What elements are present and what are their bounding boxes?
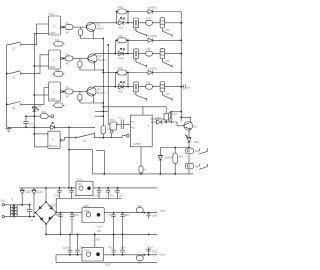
wire Q4 collector up [181,117,190,122]
node ym3 left [115,86,117,88]
node emitter ch1 [103,38,105,40]
wire base Q1 [73,26,86,28]
wire U4 feed down [68,127,70,188]
diode D2 [148,34,181,42]
wire vert right3 [127,73,129,87]
regulator VR3 [82,247,111,266]
node rail1 u4 [68,187,70,189]
svg-text:7912: 7912 [105,263,111,267]
AC plug P1 [1,199,9,218]
LED D10 on ground line [50,122,54,129]
wire left bus [6,45,8,128]
switch motor3 [162,92,172,101]
wire right bus [180,12,182,122]
resistor R11 [117,34,129,43]
svg-text:150: 150 [137,204,142,208]
wire bottom left [7,127,95,129]
wire base Q3 [73,91,87,93]
wire Q1 emitter [81,30,104,38]
svg-text:4148: 4148 [155,116,161,120]
wire rail1 +raw [19,187,157,189]
motor M2 [160,48,170,62]
svg-text:1N4001: 1N4001 [148,66,158,70]
ground [6,127,12,131]
diode D3 [148,66,181,74]
node yt3 feed [103,72,105,74]
LED opto ch3 [119,81,128,93]
svg-text:2200u: 2200u [63,246,71,250]
capacitor C6 [94,187,101,198]
capacitor C15 [63,234,73,255]
svg-text:100u: 100u [152,213,158,217]
wire mystery horizontal [95,110,108,112]
wire vert left3 [114,73,116,87]
svg-text:47u: 47u [109,246,114,250]
wire row C [56,254,157,256]
node top feed [103,106,105,108]
node mid h [104,173,106,175]
svg-text:Rlb: Rlb [195,165,199,169]
capacitor C8 [115,187,123,198]
wire U4 upper pin [34,133,48,135]
wire 555 bottom [140,147,142,166]
svg-text:PL1: PL1 [1,199,6,203]
svg-text:→ +12V: → +12V [93,225,103,229]
svg-text:VR1: VR1 [77,182,83,186]
wire box2 lower pin [34,65,49,67]
svg-text:7812: 7812 [77,177,83,181]
regulator VR1 [76,177,93,195]
svg-text:Q2: Q2 [98,54,102,58]
node R17 bottom [103,137,105,139]
svg-text:150: 150 [137,261,142,265]
svg-text:4k7: 4k7 [66,30,71,34]
diode D1 [148,5,181,13]
diode D8 [20,188,31,205]
svg-text:220u: 220u [152,249,158,253]
wire Q2 emitter [80,62,103,70]
relay K2 [133,49,138,63]
svg-text:10k: 10k [55,38,60,42]
node right top3 [127,72,129,74]
wire 555 right top [152,112,181,120]
resistor R19 [173,148,183,174]
svg-text:1N4001: 1N4001 [148,34,158,38]
wire left feed rows [55,199,57,263]
diode D9 [32,188,43,217]
svg-text:100n: 100n [79,246,85,250]
svg-text:M1: M1 [166,28,170,32]
node bridge gnd [45,234,47,236]
svg-text:100n: 100n [73,213,79,217]
relay K3 [133,82,138,96]
svg-text:R3: R3 [66,85,70,89]
resistor R20 [136,204,145,214]
wire row B [56,212,157,214]
svg-text:Q3: Q3 [97,87,101,91]
node left top2 [116,40,118,42]
svg-text:47u: 47u [109,194,114,198]
node left top3 [116,72,118,74]
svg-text:4L1: 4L1 [119,25,124,29]
node u4 feed [68,149,70,151]
svg-text:VR2: VR2 [84,209,90,213]
wire rail1b [56,198,122,200]
op-amp U2 box [49,50,61,69]
svg-text:2u2: 2u2 [29,122,34,126]
node left top1 [116,11,118,13]
svg-text:100n: 100n [94,194,100,198]
node bus ym1 [180,22,182,24]
connector J1 [51,115,54,118]
node ym3 right [127,86,129,88]
svg-text:S1: S1 [12,47,16,51]
capacitor C13 [120,212,130,235]
svg-text:(bot): (bot) [160,252,165,256]
resistor R3 [65,85,73,98]
node bottom mid loop [174,173,176,175]
node bottom r18 [140,173,142,175]
svg-text:M2: M2 [166,59,170,63]
resistor R4 between boxes [53,38,65,46]
node cap join [25,115,27,117]
transistor Q1 [86,22,105,31]
switch S1 [7,42,23,51]
node bus crossing [34,115,36,117]
pin 6 of U2 [61,57,65,59]
wire U4 lower pin [34,146,48,148]
resistor R17 on emitter bus [101,126,111,138]
resistor R7 pulldown ch1 [78,27,82,38]
wire box3 lower pin [34,94,49,96]
node q4c [180,117,182,119]
resistor R8 pulldown ch2 [78,58,82,70]
node loop top mid [174,147,176,149]
svg-text:470u: 470u [54,194,60,198]
relay RL1 [185,148,199,163]
svg-text:4148: 4148 [25,190,31,194]
pin 6 of U3 [61,91,65,93]
resistor R6 below box3 [53,99,65,107]
LED opto ch1 [119,17,128,29]
svg-text:→ GND: → GND [91,238,100,242]
resistor R12 [117,66,129,75]
node bottom left loop [160,173,162,175]
relay RL2 [185,163,199,174]
switch S2 [6,71,23,80]
op-amp U3 box [49,82,61,101]
wire return bus [34,33,48,146]
wire bridge top to rail1 [45,188,47,202]
resistor R1 [65,21,73,34]
wire vert left1 [116,12,118,23]
svg-text:10k: 10k [55,68,60,72]
svg-text:220: 220 [118,5,123,9]
node sec top [21,204,23,206]
wire GND rail [46,234,157,236]
wire yt2 [128,39,148,41]
switch limit2 [136,58,147,67]
wire S1 to box1 [23,24,49,45]
capacitor C3 [22,204,32,217]
wire ym1 [128,22,181,24]
node emitter ch3 [103,102,105,104]
svg-text:4k7: 4k7 [66,95,71,99]
svg-text:10u: 10u [119,194,124,198]
wire speaker down [165,120,167,122]
LED opto ch2 [119,48,128,60]
transistor Q4 [184,122,197,131]
node ym1 left [116,22,118,24]
resistor R9 pulldown ch3 [78,92,82,104]
svg-text:Rla: Rla [195,149,199,153]
node terminal wire [103,115,105,117]
node ym2 right [127,53,129,55]
switch S4 [76,132,126,142]
svg-text:MOC30: MOC30 [49,144,58,148]
capacitor C7 [106,187,114,198]
resistor R5 between boxes [53,68,65,76]
wire mid horizontal [69,150,104,174]
op-amp U1 box [49,12,61,35]
wire Q3 emitter [80,95,103,103]
resistor R15 [146,80,153,89]
node right top2 [127,40,129,42]
pin circle 555 [126,134,129,137]
svg-text:100n: 100n [73,194,79,198]
LED D4 [32,104,41,111]
wire VR3 gnd [94,234,96,247]
svg-text:1N4007: 1N4007 [48,203,58,207]
wire S3 to box3 [23,88,49,105]
node bus yt2 [180,40,182,42]
node bus yt3 [180,72,182,74]
svg-text:VR3: VR3 [84,249,90,253]
transformer T1 [9,197,34,217]
node bridge rail1 [45,187,47,189]
speaker LS1 [164,111,178,123]
wire ym3 [115,86,181,88]
wire bottom rail [56,261,157,263]
transistor Q3 [87,87,106,96]
node ym2 left [115,53,117,55]
motor M3 [160,82,170,96]
wire Q2 collector [95,54,116,55]
resistor R21 [136,254,145,265]
capacitor C17 [120,234,126,255]
motor M1 [160,18,170,32]
svg-text:S3: S3 [12,106,16,110]
pin circle U4 [60,138,76,142]
switch S3 [6,102,23,110]
node speaker [165,121,167,123]
capacitor C5 [70,187,80,198]
resistor R18 [139,166,148,174]
svg-text:BC547: BC547 [97,91,105,95]
node emitter ch2 [103,69,105,71]
svg-text:RV1: RV1 [110,118,116,122]
wire bridge bottom to gnd rail [45,224,47,234]
svg-text:100: 100 [146,47,151,51]
svg-text:2200u: 2200u [55,213,63,217]
node bus ym3 [180,86,182,88]
node right top1 [127,11,129,13]
svg-text:10k: 10k [55,99,60,103]
wire yt3 feed [103,72,116,74]
capacitor C1 [23,117,34,128]
svg-text:BC547: BC547 [97,26,105,30]
switch limit1 [136,28,147,37]
svg-text:M3: M3 [166,92,170,96]
diode D5 output [152,116,184,126]
wire emitter bus [102,39,104,126]
switch limit3 [136,92,147,101]
wire Q4 emitter + LED D6 [185,129,199,147]
svg-text:100: 100 [146,16,151,20]
capacitor C2 [118,116,130,129]
node aux top [107,44,109,46]
resistor R16 [40,110,48,119]
svg-text:IC1a: IC1a [49,12,55,16]
svg-text:AC: AC [194,125,198,129]
svg-text:7805: 7805 [83,204,89,208]
pin 6 of U1 [61,26,65,28]
node vr3 gnd [94,234,96,236]
svg-text:1N4001: 1N4001 [148,5,158,9]
svg-text:BC547: BC547 [98,58,106,62]
wire S2 to box2 [23,55,49,74]
svg-text:100n: 100n [124,213,130,217]
svg-text:47u: 47u [108,213,113,217]
bridge rectifier B1 [30,201,57,225]
capacitor C12 [108,212,116,235]
wire loop top [160,147,189,149]
wire Q3 collector [94,87,116,88]
wire loop left + diode D7 [158,148,174,174]
svg-text:C2: C2 [118,116,122,120]
svg-text:D4: D4 [38,104,42,108]
wire yt3 [128,72,148,74]
switch motor1 [162,28,172,37]
wire vert left2 [114,40,116,53]
capacitor C10 [55,212,63,235]
switch motor2 [162,59,172,68]
svg-text:220: 220 [118,34,123,38]
trim pot RV1 [108,111,121,137]
wire base Q2 [73,57,88,59]
svg-text:LM555: LM555 [133,142,141,146]
node sec bot [33,216,35,218]
node loop top right [188,147,190,149]
svg-text:4148: 4148 [37,190,43,194]
capacitor C16 [109,234,116,255]
transistor Q2 [88,54,107,63]
capacitor C4 [54,187,62,198]
svg-text:1N4007: 1N4007 [164,156,174,160]
svg-text:4N25: 4N25 [49,31,56,35]
node ym1 right [127,22,129,24]
relay K1 [133,18,138,32]
svg-text:2k2: 2k2 [179,154,184,158]
capacitor C11 [70,212,80,235]
capacitor C14 [146,212,158,219]
resistor R14 [146,47,153,56]
svg-text:→ -12V: → -12V [144,245,153,249]
svg-text:R1: R1 [66,21,70,25]
svg-text:4k7: 4k7 [66,62,71,66]
wire speaker top feed [143,107,166,114]
svg-text:4L3: 4L3 [119,89,124,93]
svg-text:100: 100 [146,80,151,84]
regulator VR2 [82,204,104,223]
op-amp U4 box [48,131,60,148]
svg-text:ant: ant [187,85,191,89]
wire Q1 collector [93,22,116,24]
resistor R2 [65,52,73,65]
capacitor C18 [146,247,158,256]
svg-text:100n: 100n [120,246,126,250]
svg-text:R16: R16 [41,110,46,114]
svg-text:S2: S2 [12,75,16,79]
svg-text:LS1: LS1 [173,112,178,116]
wire top feed [103,107,143,115]
wire vert right1 [127,12,129,23]
IC 555 U5 [130,115,152,147]
wire terminal line [26,115,103,117]
svg-text:(top): (top) [160,209,165,213]
node bus bottom [180,111,182,113]
switch K1a [199,148,207,154]
svg-text:→ +5V: → +5V [93,229,101,233]
svg-text:R2: R2 [66,52,70,56]
wire long bottom [92,173,193,175]
svg-text:S4: S4 [83,139,87,143]
switch K1b [199,164,207,170]
wire vert right2 [127,40,129,53]
node crossing [103,111,105,113]
capacitor stub C9 [180,85,190,90]
wire aux bus [107,45,109,111]
resistor R13 [146,16,153,25]
svg-text:220: 220 [118,66,123,70]
svg-text:4L2: 4L2 [119,56,124,60]
svg-text:LED: LED [194,140,199,144]
wire yt1 [128,11,148,13]
wire ym2 [115,53,181,55]
node bus ym2 [180,53,182,55]
resistor R10 [117,5,129,14]
